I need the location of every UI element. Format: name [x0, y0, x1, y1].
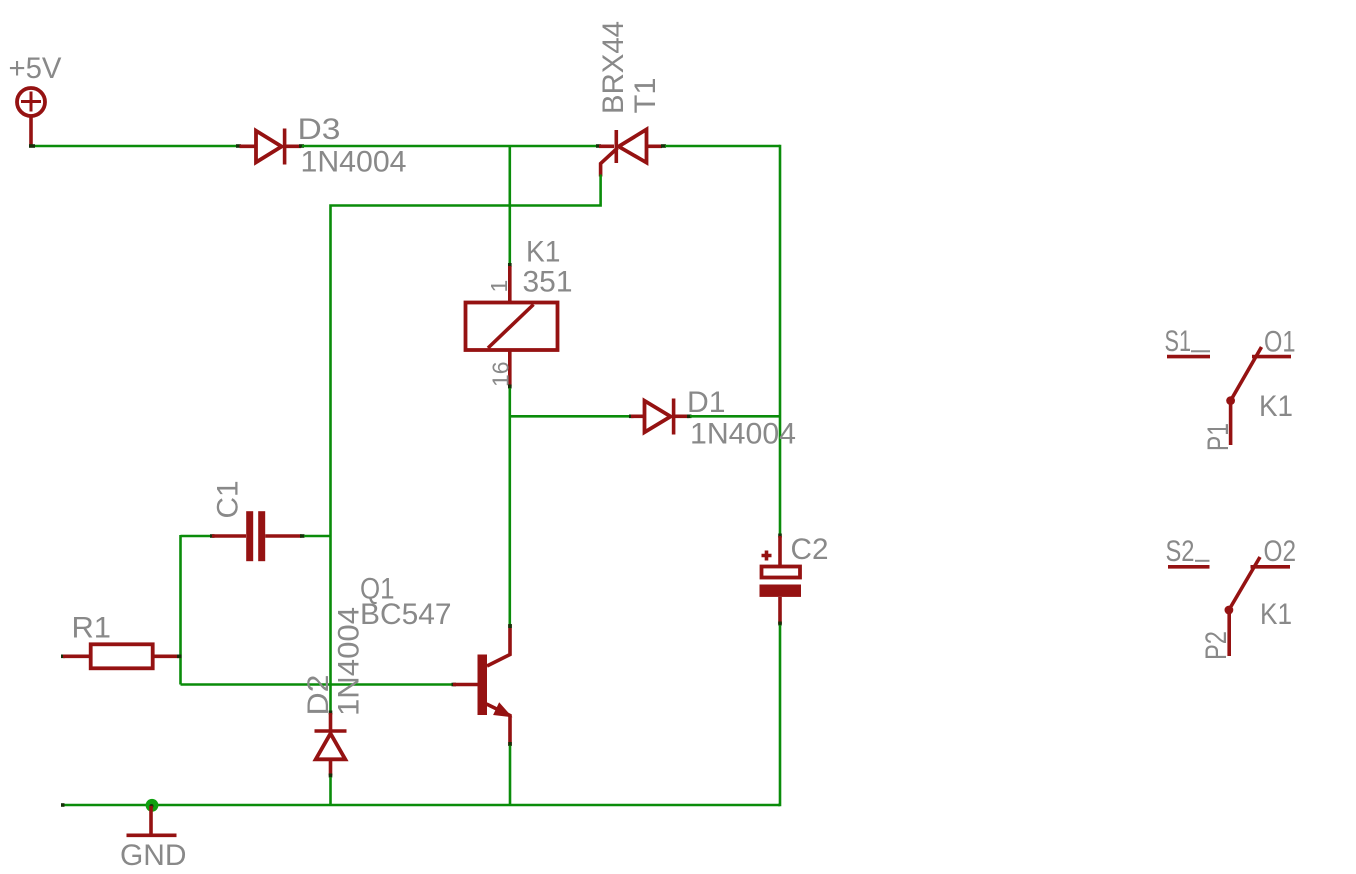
svg-text:1N4004: 1N4004 [333, 607, 366, 716]
wire rail: T1 to right corner [665, 145, 780, 148]
svg-text:D1: D1 [687, 386, 726, 419]
wire rail: D3 to T1 [302, 145, 597, 148]
tick at rail left end [61, 803, 65, 807]
diode D3 [240, 129, 302, 165]
tick at Q1 emitter [508, 742, 512, 746]
resistor R1 [61, 644, 179, 668]
svg-text:BC547: BC547 [360, 598, 452, 631]
tick at D2 anode pin [329, 774, 333, 778]
svg-text:T1: T1 [629, 78, 662, 114]
diode D2 [315, 713, 347, 776]
wire: D1 cathode to right vertical [690, 415, 780, 418]
svg-text:K1: K1 [1260, 598, 1292, 631]
tick at D3 anode [236, 144, 241, 148]
wire: C2 down to ground rail [778, 625, 780, 805]
svg-text:P2: P2 [1200, 631, 1233, 660]
svg-text:1: 1 [486, 280, 512, 293]
svg-text:S2: S2 [1166, 535, 1195, 568]
svg-text:K1: K1 [526, 236, 561, 269]
svg-text:P1: P1 [1202, 423, 1235, 451]
diode D1 [631, 399, 689, 435]
wire: base node to Q1 base [181, 683, 452, 686]
thyristor T1 [599, 129, 662, 176]
wire: C1 left down to base node [179, 535, 182, 685]
svg-text:S1: S1 [1165, 325, 1192, 358]
wire gate net: T1 gate down, left and down to D2 [331, 175, 601, 712]
wire: rail to relay pin 1 [508, 147, 511, 265]
wire: C1 right to gate net [304, 535, 331, 538]
tick at C2 plus pin [778, 534, 782, 538]
wire ground rail [61, 804, 780, 807]
svg-text:R1: R1 [72, 612, 112, 645]
wire +5V rail: supply to D3 [31, 145, 237, 148]
svg-text:1N4004: 1N4004 [301, 146, 407, 179]
svg-text:GND: GND [120, 839, 187, 872]
junction tick at +5V stem [29, 144, 35, 148]
tick at D3 cathode [299, 144, 304, 148]
tick at C2 minus pin [778, 622, 782, 626]
wire right vertical: rail down to C2 [779, 145, 782, 535]
ground GND symbol [127, 806, 177, 835]
tick at D1 cathode [687, 414, 692, 418]
svg-text:BRX44: BRX44 [597, 21, 630, 114]
svg-text:C1: C1 [212, 481, 245, 519]
tick at Q1 collector [508, 624, 512, 628]
svg-text:K1: K1 [1259, 390, 1293, 423]
tick at relay pin16 [508, 385, 512, 389]
capacitor C1 [212, 511, 302, 561]
wire: branch to D1 anode [511, 415, 629, 418]
relay coil K1 [466, 266, 558, 387]
supply +5V symbol [17, 88, 45, 146]
tick at R1 right pin [177, 654, 182, 658]
svg-text:351: 351 [523, 266, 573, 299]
svg-text:16: 16 [488, 361, 514, 387]
transistor Q1 [453, 625, 510, 746]
tick at T1 anode-left [596, 144, 601, 148]
junction dot at GND [146, 799, 159, 812]
wire: Q1 emitter to ground rail [509, 746, 512, 806]
tick at C1 left pin [210, 534, 215, 538]
svg-text:C2: C2 [791, 533, 829, 566]
svg-text:O2: O2 [1264, 535, 1297, 568]
capacitor C2 (polarized) [760, 536, 802, 624]
svg-text:1N4004: 1N4004 [690, 418, 796, 451]
tick at D1 anode [629, 414, 634, 418]
wire: D2 anode to ground rail [329, 777, 332, 805]
relay contact 1 of K1 [1167, 347, 1291, 445]
tick at relay pin1 [508, 263, 512, 267]
relay contact 2 of K1 [1168, 557, 1290, 656]
junction dot dark center [150, 804, 154, 808]
tick at Q1 base pin [452, 683, 457, 687]
svg-text:O1: O1 [1264, 326, 1296, 359]
svg-text:+5V: +5V [9, 52, 62, 85]
tick at C1 right pin [300, 534, 305, 538]
tick at D2 cathode pin [329, 711, 333, 715]
svg-text:D3: D3 [298, 113, 341, 146]
wire: C1 left to vertical [181, 535, 211, 538]
wire: relay pin16 down to Q1 collector [508, 388, 511, 625]
tick at T1 right pin [661, 144, 666, 148]
svg-text:D2: D2 [302, 675, 335, 716]
